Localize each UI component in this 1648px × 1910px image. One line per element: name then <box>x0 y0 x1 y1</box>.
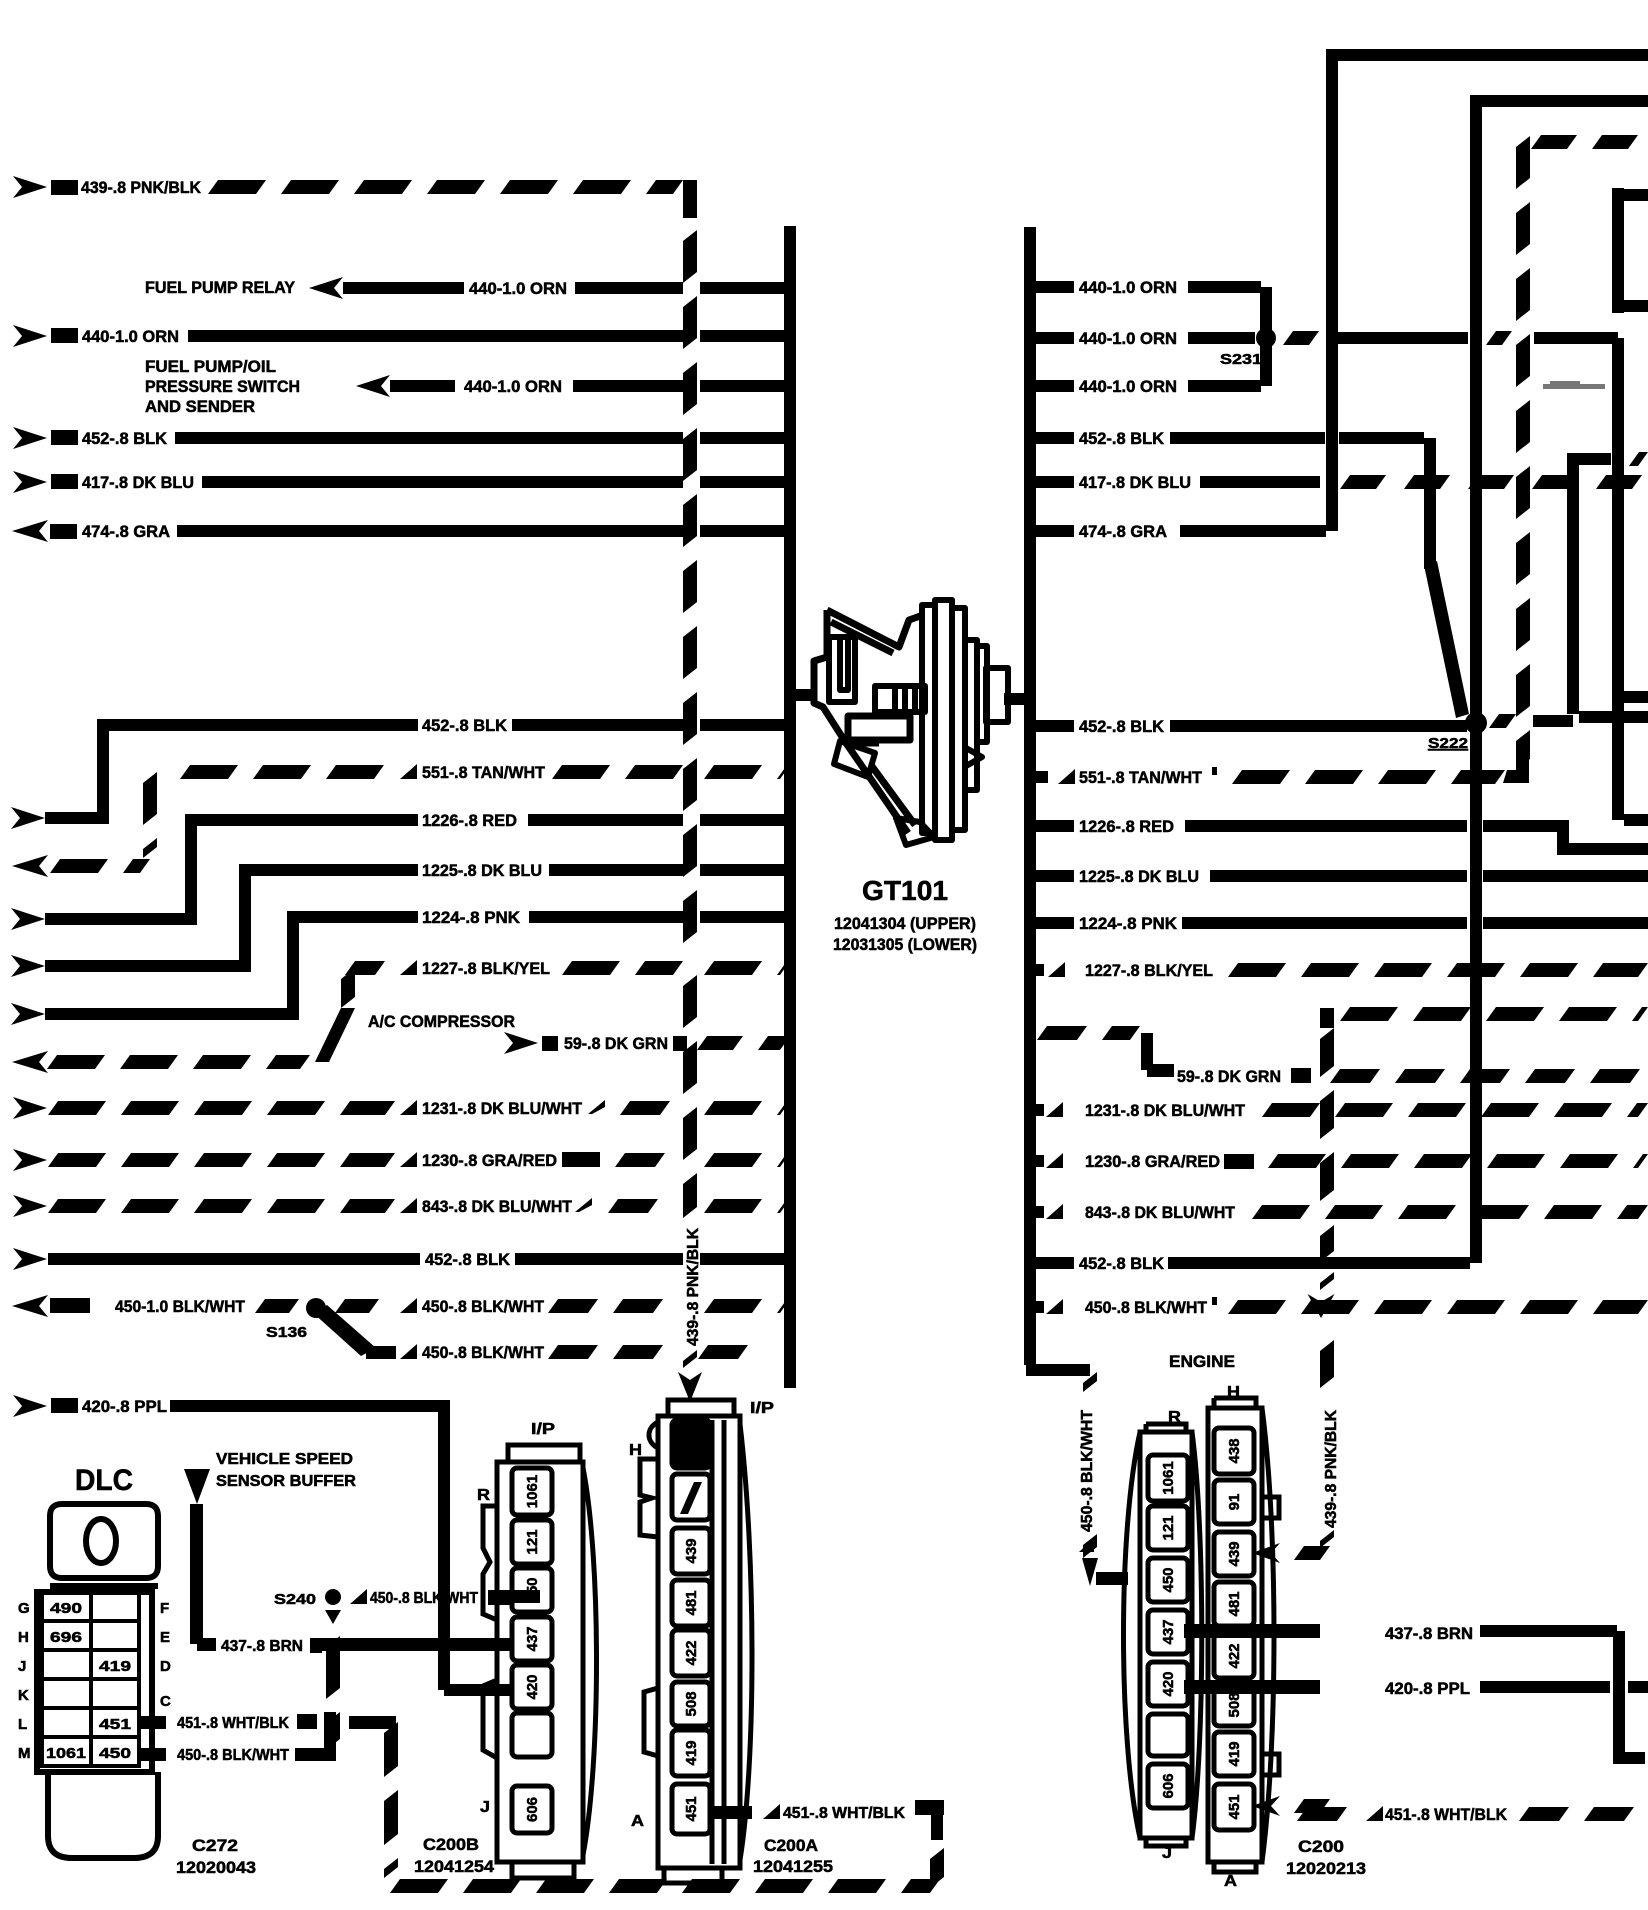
label ENGINE <box>1169 1352 1235 1371</box>
wire 440-1.0 ORN (right row 1) <box>1035 278 1272 337</box>
label 12041254 <box>414 1857 495 1876</box>
svg-text:696: 696 <box>50 1629 82 1646</box>
wire 59-.8 DK GRN (left) <box>504 1032 790 1054</box>
svg-text:417-.8 DK BLU: 417-.8 DK BLU <box>1079 473 1191 492</box>
svg-text:1226-.8 RED: 1226-.8 RED <box>422 811 517 830</box>
svg-text:450-.8 BLK/WHT: 450-.8 BLK/WHT <box>177 1747 289 1764</box>
svg-text:59-.8 DK GRN: 59-.8 DK GRN <box>564 1034 668 1053</box>
wire stub GT101 right <box>1004 693 1028 705</box>
wire 452-.8 BLK (right lower) <box>1030 726 1482 1273</box>
label 12041304 (UPPER) <box>834 914 976 933</box>
wire 440-1.0 ORN to FUEL PUMP RELAY <box>145 277 790 299</box>
label 439-.8 PNK/BLK (vertical) <box>685 1228 702 1346</box>
wire 474-.8 GRA vertical to top right <box>1326 49 1648 531</box>
wire 452-.8 BLK (right upper) <box>1035 429 1469 718</box>
svg-text:439-.8 PNK/BLK: 439-.8 PNK/BLK <box>1323 1410 1340 1528</box>
wire 450-1.0 BLK/WHT with splice S136 <box>12 1295 299 1317</box>
svg-text:I/P: I/P <box>750 1400 774 1417</box>
svg-text:C200B: C200B <box>423 1835 479 1854</box>
wire S231 branch vertical (right) <box>1612 338 1648 826</box>
svg-text:1061: 1061 <box>1160 1461 1177 1494</box>
svg-text:422: 422 <box>683 1640 700 1665</box>
connector C200 left column pins <box>1148 1455 1188 1808</box>
svg-text:R: R <box>1168 1409 1181 1426</box>
wire 1224-.8 PNK <box>11 908 790 1025</box>
label C200A <box>764 1836 818 1855</box>
svg-text:AND SENDER: AND SENDER <box>145 397 255 416</box>
wire right loop (452 area) <box>1567 452 1648 723</box>
wire 417-.8 DK BLU (right, dashed) <box>1035 473 1642 492</box>
connector C200 right column outline (H-A) <box>1208 1398 1279 1872</box>
svg-text:843-.8 DK BLU/WHT: 843-.8 DK BLU/WHT <box>422 1197 573 1216</box>
svg-text:452-.8 BLK: 452-.8 BLK <box>82 429 168 448</box>
svg-text:419: 419 <box>1226 1741 1243 1766</box>
svg-text:419: 419 <box>683 1740 700 1765</box>
svg-text:450: 450 <box>524 1577 541 1602</box>
svg-text:12031305 (LOWER): 12031305 (LOWER) <box>833 935 977 954</box>
svg-text:439-.8 PNK/BLK: 439-.8 PNK/BLK <box>685 1228 702 1346</box>
svg-text:H: H <box>18 1629 29 1646</box>
svg-text:422: 422 <box>1226 1643 1243 1668</box>
wire 1227-.8 BLK/YEL (right, dashed) <box>1030 961 1648 980</box>
label A (C200A) <box>631 1813 644 1830</box>
wire 440-1.0 ORN (right row 3) <box>1035 337 1272 396</box>
svg-text:GT101: GT101 <box>862 875 948 906</box>
wire 1224-.8 PNK (right) <box>1035 914 1648 933</box>
wire DLC 450 to S240 (vertical) <box>326 1636 340 1750</box>
wire 1226-.8 RED <box>11 811 790 930</box>
wire bottom dashed run (DLC 451 to C200A 451) <box>390 1879 940 1893</box>
svg-text:440-1.0 ORN: 440-1.0 ORN <box>469 279 567 298</box>
connector DLC outline <box>37 1504 158 1858</box>
svg-text:451-.8 WHT/BLK: 451-.8 WHT/BLK <box>783 1805 905 1822</box>
label 12020213 <box>1286 1859 1366 1878</box>
svg-text:1061: 1061 <box>524 1475 541 1508</box>
wire 439-.8 PNK/BLK (top left, dashed to center) <box>13 176 697 218</box>
svg-text:D: D <box>160 1658 171 1675</box>
svg-text:420-.8 PPL: 420-.8 PPL <box>1385 1679 1470 1698</box>
wire 440-1.0 ORN (left input) <box>13 325 790 347</box>
label J (C200) <box>1162 1845 1172 1862</box>
svg-text:J: J <box>18 1658 26 1675</box>
wire 59-.8 DK GRN (right, dashed) <box>1037 1026 1640 1086</box>
DLC pin numbers <box>46 1600 131 1762</box>
DLC pin letters G H J K L M <box>18 1600 31 1762</box>
component vehicle speed sensor buffer lead <box>184 1469 216 1651</box>
svg-text:451: 451 <box>683 1796 700 1821</box>
wire dashed vertical (right) with top corner <box>1516 135 1638 770</box>
wire 1225-.8 DK BLU (right) <box>1035 867 1648 886</box>
svg-text:420: 420 <box>524 1674 541 1699</box>
wire 843-.8 DK BLU/WHT (dashed) <box>13 1195 790 1217</box>
svg-text:R: R <box>477 1487 490 1504</box>
svg-text:452-.8 BLK: 452-.8 BLK <box>425 1250 511 1269</box>
svg-text:1225-.8 DK BLU: 1225-.8 DK BLU <box>422 861 542 880</box>
svg-text:439: 439 <box>1226 1541 1243 1566</box>
wire 450-.8 BLK/WHT (DLC row) <box>139 1712 336 1764</box>
wire 843-.8 DK BLU/WHT (right, dashed) <box>1030 1203 1648 1222</box>
DLC pin letters F E D C <box>160 1600 171 1710</box>
connector GT101 graphic <box>814 610 923 833</box>
svg-text:551-.8 TAN/WHT: 551-.8 TAN/WHT <box>422 763 546 782</box>
wire 474-.8 GRA (left output) <box>12 520 790 542</box>
svg-text:12041304 (UPPER): 12041304 (UPPER) <box>834 914 976 933</box>
label 439-.8 PNK/BLK (vertical right) <box>1323 1410 1340 1528</box>
wire 439-.8 PNK/BLK vertical right (dashed) <box>1308 1028 1335 1388</box>
label 12020043 <box>176 1858 256 1877</box>
label GT101 <box>862 875 948 906</box>
svg-text:450-.8 BLK/WHT: 450-.8 BLK/WHT <box>422 1297 545 1316</box>
label A/C COMPRESSOR <box>368 1012 515 1031</box>
wire 1231-.8 DK BLU/WHT (right, dashed) <box>1030 1101 1648 1120</box>
svg-text:450: 450 <box>1160 1567 1177 1592</box>
svg-text:452-.8 BLK: 452-.8 BLK <box>1079 429 1165 448</box>
svg-text:437-.8 BRN: 437-.8 BRN <box>221 1638 303 1655</box>
svg-text:ENGINE: ENGINE <box>1169 1352 1235 1371</box>
wire 437-.8 BRN (C200 to right edge) <box>1184 1624 1645 1764</box>
wire 420-.8 PPL (C200 to right edge) <box>1184 1679 1648 1698</box>
label J (C200B) <box>480 1799 490 1816</box>
svg-text:A/C COMPRESSOR: A/C COMPRESSOR <box>368 1012 515 1031</box>
svg-text:FUEL PUMP RELAY: FUEL PUMP RELAY <box>145 278 296 297</box>
label H (C200A) <box>629 1442 642 1459</box>
wire top right corner 2 (vertical bus to edge) <box>1470 95 1648 726</box>
svg-text:452-.8 BLK: 452-.8 BLK <box>422 716 508 735</box>
bracket component stub (right edge) <box>1612 188 1648 313</box>
wire 420-.8 PPL (to C200B) <box>13 1395 514 1696</box>
wire bus vertical right (GT101 connector face) <box>1024 227 1090 1376</box>
svg-text:419: 419 <box>99 1658 131 1675</box>
svg-text:490: 490 <box>50 1600 82 1617</box>
wire stub GT101 left <box>792 689 816 701</box>
wire 439 elbow into C200 pin 439 <box>1252 1530 1334 1563</box>
svg-text:440-1.0 ORN: 440-1.0 ORN <box>1079 329 1177 348</box>
svg-text:S231: S231 <box>1220 351 1262 368</box>
label C200B <box>423 1835 479 1854</box>
svg-text:PRESSURE SWITCH: PRESSURE SWITCH <box>145 377 300 396</box>
svg-text:F: F <box>160 1600 169 1617</box>
svg-text:1227-.8 BLK/YEL: 1227-.8 BLK/YEL <box>1085 961 1213 980</box>
svg-text:C: C <box>160 1693 171 1710</box>
svg-text:450-.8 BLK/WHT: 450-.8 BLK/WHT <box>422 1343 545 1362</box>
svg-text:E: E <box>160 1629 170 1646</box>
wire 1231-.8 DK BLU/WHT (dashed) <box>13 1097 790 1119</box>
svg-text:1231-.8 DK BLU/WHT: 1231-.8 DK BLU/WHT <box>1085 1101 1246 1120</box>
svg-text:440-1.0 ORN: 440-1.0 ORN <box>1079 278 1177 297</box>
svg-text:481: 481 <box>683 1590 700 1615</box>
svg-text:12020043: 12020043 <box>176 1858 256 1877</box>
svg-text:437-.8 BRN: 437-.8 BRN <box>1385 1624 1473 1643</box>
svg-text:1230-.8 GRA/RED: 1230-.8 GRA/RED <box>1085 1152 1220 1171</box>
svg-text:J: J <box>480 1799 490 1816</box>
svg-text:J: J <box>1162 1845 1172 1862</box>
svg-text:474-.8 GRA: 474-.8 GRA <box>82 522 170 541</box>
svg-text:SENSOR BUFFER: SENSOR BUFFER <box>216 1473 356 1490</box>
svg-text:474-.8 GRA: 474-.8 GRA <box>1079 522 1167 541</box>
connector C200B outline <box>483 1445 597 1878</box>
svg-text:420-.8 PPL: 420-.8 PPL <box>82 1397 167 1416</box>
svg-text:S240: S240 <box>274 1591 316 1608</box>
svg-text:S222: S222 <box>1428 735 1468 752</box>
svg-text:L: L <box>18 1716 27 1733</box>
svg-text:450: 450 <box>99 1745 131 1762</box>
svg-text:12041254: 12041254 <box>414 1857 495 1876</box>
svg-text:K: K <box>18 1687 29 1704</box>
wire S136 to lower 450-.8 BLK/WHT (diagonal) <box>312 1305 376 1356</box>
label R (C200B) <box>477 1487 490 1504</box>
svg-text:I/P: I/P <box>531 1421 555 1438</box>
svg-text:606: 606 <box>1160 1773 1177 1798</box>
svg-text:S136: S136 <box>266 1324 307 1341</box>
wire 1227-.8 BLK/YEL (dashed) <box>12 959 790 1073</box>
svg-text:G: G <box>18 1600 30 1617</box>
svg-text:440-1.0 ORN: 440-1.0 ORN <box>82 327 179 346</box>
splice S136 <box>266 1298 326 1341</box>
svg-text:12041255: 12041255 <box>753 1857 833 1876</box>
svg-text:508: 508 <box>1226 1692 1243 1717</box>
svg-text:1226-.8 RED: 1226-.8 RED <box>1079 817 1174 836</box>
wire 452-.8 BLK (right mid at S222) <box>1035 714 1573 736</box>
svg-text:1227-.8 BLK/YEL: 1227-.8 BLK/YEL <box>422 959 550 978</box>
connector C200B pins <box>512 1468 552 1833</box>
connector C200A pins <box>672 1420 710 1834</box>
wire 439-.8 PNK/BLK vertical (dashed, center) <box>678 230 702 1402</box>
wire 551-.8 TAN/WHT (right, dashed) <box>1030 756 1529 787</box>
label 12041255 <box>753 1857 833 1876</box>
wire 551-.8 TAN/WHT (dashed) <box>12 763 790 877</box>
svg-text:437: 437 <box>1160 1619 1177 1644</box>
svg-text:C200A: C200A <box>764 1836 818 1855</box>
wire 1226-.8 RED (right) <box>1035 817 1648 855</box>
svg-text:439-.8 PNK/BLK: 439-.8 PNK/BLK <box>81 178 202 197</box>
wire 474-.8 GRA (right) <box>1035 522 1326 541</box>
svg-text:H: H <box>1227 1384 1240 1401</box>
splice S240 <box>274 1589 341 1624</box>
label C272 <box>192 1836 238 1855</box>
label 12031305 (LOWER) <box>833 935 977 954</box>
svg-text:1224-.8 PNK: 1224-.8 PNK <box>1079 914 1178 933</box>
wire 452-.8 BLK (lower left) <box>13 1248 790 1270</box>
label A (C200) <box>1224 1873 1237 1890</box>
svg-text:438: 438 <box>1226 1438 1243 1463</box>
splice S231 <box>1220 328 1276 368</box>
wire 440-1.0 ORN (right row 2, S231 feed across) <box>1035 329 1618 348</box>
connector C200A outline <box>640 1400 752 1883</box>
wire 1225-.8 DK BLU <box>11 861 790 977</box>
label VEHICLE SPEED SENSOR BUFFER <box>216 1451 356 1490</box>
svg-text:DLC: DLC <box>75 1464 133 1497</box>
svg-text:417-.8 DK BLU: 417-.8 DK BLU <box>82 473 194 492</box>
svg-text:451: 451 <box>99 1716 131 1733</box>
wire 450-.8 BLK/WHT (right, dashed) <box>1030 1297 1648 1317</box>
svg-text:450-.8 BLK/WHT: 450-.8 BLK/WHT <box>370 1590 478 1607</box>
svg-text:1231-.8 DK BLU/WHT: 1231-.8 DK BLU/WHT <box>422 1099 583 1118</box>
svg-text:59-.8 DK GRN: 59-.8 DK GRN <box>1177 1067 1281 1086</box>
label DLC <box>75 1464 133 1497</box>
svg-text:451-.8 WHT/BLK: 451-.8 WHT/BLK <box>1385 1805 1508 1824</box>
label R (C200) <box>1168 1409 1181 1426</box>
svg-text:A: A <box>631 1813 644 1830</box>
label C200 <box>1298 1837 1344 1856</box>
svg-text:450-.8 BLK/WHT: 450-.8 BLK/WHT <box>1079 1410 1096 1532</box>
svg-text:121: 121 <box>1160 1515 1177 1540</box>
svg-text:450-1.0 BLK/WHT: 450-1.0 BLK/WHT <box>115 1297 246 1316</box>
wire 452-.8 BLK (mid left) <box>11 716 790 829</box>
svg-text:437: 437 <box>524 1626 541 1651</box>
smudge artifact <box>1543 381 1605 389</box>
label H (C200) <box>1227 1384 1240 1401</box>
connector C200 right column pins <box>1214 1428 1254 1830</box>
svg-text:452-.8 BLK: 452-.8 BLK <box>1079 1254 1165 1273</box>
wire 1230-.8 GRA/RED (right, dashed) <box>1030 1152 1648 1171</box>
svg-text:440-1.0 ORN: 440-1.0 ORN <box>464 377 562 396</box>
wire 450-.8 BLK/WHT (lower, dashed) <box>366 1343 748 1362</box>
svg-text:A: A <box>1224 1873 1237 1890</box>
svg-text:551-.8 TAN/WHT: 551-.8 TAN/WHT <box>1079 768 1203 787</box>
svg-text:508: 508 <box>683 1691 700 1716</box>
label I/P (C200A) <box>750 1400 774 1417</box>
wire 450-.8 BLK/WHT (S240 to C200B pin 450) <box>350 1589 540 1607</box>
svg-text:1230-.8 GRA/RED: 1230-.8 GRA/RED <box>422 1151 557 1170</box>
svg-text:12020213: 12020213 <box>1286 1859 1366 1878</box>
svg-text:1061: 1061 <box>46 1745 86 1762</box>
svg-text:C272: C272 <box>192 1836 238 1855</box>
wire 440-1.0 ORN to FUEL PUMP/OIL PRESSURE SWITCH AND SENDER <box>145 357 790 416</box>
svg-text:440-1.0 ORN: 440-1.0 ORN <box>1079 377 1177 396</box>
wire 450-.8 BLK/WHT vertical (dashed, into C200 pin 450) <box>1082 1372 1128 1586</box>
svg-text:M: M <box>18 1745 31 1762</box>
svg-text:C200: C200 <box>1298 1837 1344 1856</box>
svg-text:452-.8 BLK: 452-.8 BLK <box>1079 717 1165 736</box>
wire 452-.8 BLK (upper left input) <box>13 427 790 449</box>
wire bus vertical left (GT101 connector face) <box>784 226 796 1388</box>
svg-text:481: 481 <box>1226 1591 1243 1616</box>
svg-text:VEHICLE SPEED: VEHICLE SPEED <box>216 1451 353 1468</box>
connector C200 left column outline (R-J) <box>1124 1424 1202 1846</box>
wire 450-.8 BLK/WHT (upper, dashed) <box>335 1297 790 1316</box>
wire dashed branch (right of 1227) <box>1320 1007 1648 1028</box>
svg-text:451: 451 <box>1226 1794 1243 1819</box>
svg-text:1224-.8 PNK: 1224-.8 PNK <box>422 908 521 927</box>
wire 451-.8 WHT/BLK (C200, dashed) <box>1252 1796 1634 1824</box>
svg-text:451-.8 WHT/BLK: 451-.8 WHT/BLK <box>177 1715 289 1732</box>
svg-text:606: 606 <box>524 1797 541 1822</box>
svg-text:H: H <box>629 1442 642 1459</box>
svg-text:439: 439 <box>683 1538 700 1563</box>
wire 451-.8 WHT/BLK (DLC to bottom run) <box>139 1714 398 1878</box>
svg-text:FUEL PUMP/OIL: FUEL PUMP/OIL <box>145 357 276 376</box>
svg-text:91: 91 <box>1226 1494 1243 1511</box>
wire 1230-.8 GRA/RED (dashed) <box>13 1149 790 1171</box>
splice S222 <box>1428 712 1487 752</box>
svg-text:450-.8 BLK/WHT: 450-.8 BLK/WHT <box>1085 1298 1208 1317</box>
connector DLC pin grid <box>42 1592 139 1766</box>
wire 451-.8 WHT/BLK (C200A to bottom run) <box>712 1800 944 1888</box>
svg-text:121: 121 <box>524 1529 541 1554</box>
svg-text:420: 420 <box>1160 1671 1177 1696</box>
wire 437-.8 BRN (VSS buffer to C200B) <box>221 1638 514 1655</box>
svg-text:843-.8 DK BLU/WHT: 843-.8 DK BLU/WHT <box>1085 1203 1236 1222</box>
wire 417-.8 DK BLU (left input) <box>13 471 790 493</box>
label 450-.8 BLK/WHT (vertical) <box>1079 1410 1096 1552</box>
svg-text:1225-.8 DK BLU: 1225-.8 DK BLU <box>1079 867 1199 886</box>
label I/P (C200B) <box>531 1421 555 1438</box>
